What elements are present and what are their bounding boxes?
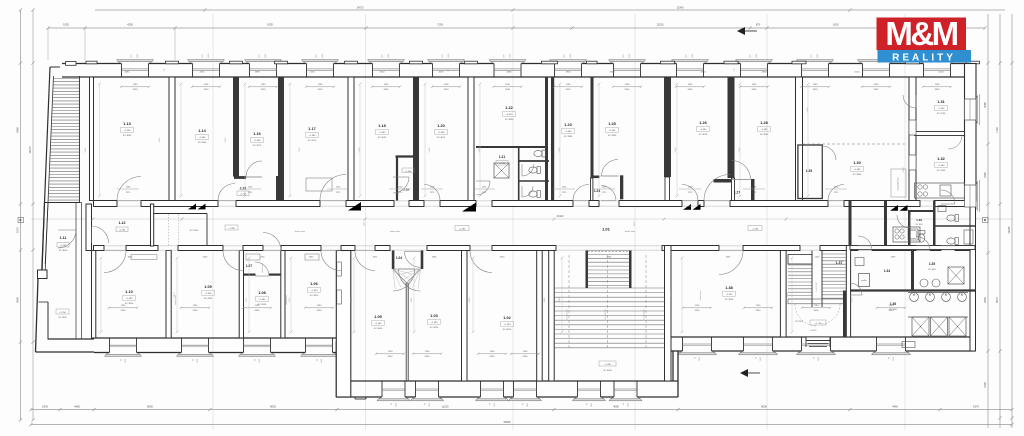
svg-text:1190: 1190 bbox=[444, 84, 449, 86]
svg-text:B: B bbox=[19, 218, 21, 222]
svg-text:SV 3630: SV 3630 bbox=[378, 137, 387, 139]
svg-text:2630: 2630 bbox=[197, 359, 199, 363]
svg-text:1.23: 1.23 bbox=[564, 123, 571, 127]
svg-text:2630: 2630 bbox=[204, 89, 210, 91]
svg-text:1190: 1190 bbox=[566, 84, 571, 86]
svg-text:+1.480: +1.480 bbox=[438, 132, 446, 134]
svg-text:2630: 2630 bbox=[813, 89, 819, 91]
svg-text:2630: 2630 bbox=[388, 356, 394, 358]
svg-text:+1.050: +1.050 bbox=[499, 163, 506, 165]
svg-text:2630: 2630 bbox=[259, 359, 261, 363]
svg-text:1.08: 1.08 bbox=[258, 291, 265, 295]
svg-text:+1.480: +1.480 bbox=[254, 140, 262, 142]
svg-text:8035: 8035 bbox=[270, 405, 276, 409]
svg-text:90: 90 bbox=[587, 403, 589, 405]
svg-text:2630: 2630 bbox=[625, 89, 631, 91]
svg-text:1190: 1190 bbox=[388, 53, 390, 58]
svg-text:1.16: 1.16 bbox=[253, 132, 260, 136]
svg-text:1370: 1370 bbox=[364, 221, 366, 227]
svg-text:SV 3980: SV 3980 bbox=[853, 174, 862, 176]
svg-text:1190: 1190 bbox=[752, 84, 757, 86]
svg-text:7120: 7120 bbox=[995, 127, 999, 133]
svg-text:dveřní otvor: dveřní otvor bbox=[625, 230, 635, 233]
svg-text:SV 3570: SV 3570 bbox=[253, 145, 262, 147]
svg-text:90: 90 bbox=[317, 359, 319, 361]
svg-text:1190: 1190 bbox=[692, 53, 694, 58]
svg-text:1.26: 1.26 bbox=[699, 121, 706, 125]
svg-text:1190: 1190 bbox=[505, 84, 510, 86]
svg-text:1.22: 1.22 bbox=[505, 106, 512, 110]
svg-text:4460: 4460 bbox=[892, 405, 898, 409]
svg-text:1.18: 1.18 bbox=[378, 124, 385, 128]
svg-text:1.04: 1.04 bbox=[396, 256, 402, 260]
svg-text:SV 2440: SV 2440 bbox=[937, 170, 946, 172]
svg-text:1190: 1190 bbox=[322, 53, 324, 58]
svg-text:+1.480: +1.480 bbox=[504, 324, 512, 326]
svg-text:1.19: 1.19 bbox=[403, 188, 409, 192]
svg-text:+1.480: +1.480 bbox=[761, 129, 769, 131]
svg-text:2630: 2630 bbox=[321, 359, 323, 363]
svg-text:9135: 9135 bbox=[267, 23, 273, 27]
svg-text:1190: 1190 bbox=[814, 305, 819, 307]
svg-text:3955: 3955 bbox=[983, 297, 987, 303]
svg-text:1190: 1190 bbox=[490, 351, 495, 353]
svg-text:2630: 2630 bbox=[566, 89, 572, 91]
svg-text:SV 4330: SV 4330 bbox=[204, 298, 213, 300]
svg-text:2630: 2630 bbox=[425, 356, 431, 358]
svg-text:1190: 1190 bbox=[121, 305, 126, 307]
svg-text:90: 90 bbox=[255, 359, 257, 361]
svg-text:2630: 2630 bbox=[688, 89, 694, 91]
svg-text:1.12: 1.12 bbox=[119, 221, 126, 225]
svg-text:dveřní otvor: dveřní otvor bbox=[285, 295, 288, 305]
svg-text:+1.480: +1.480 bbox=[379, 132, 387, 134]
svg-text:1925: 1925 bbox=[63, 23, 69, 27]
svg-text:2190: 2190 bbox=[983, 382, 987, 388]
svg-text:SV 3980: SV 3980 bbox=[505, 119, 514, 121]
svg-text:+1.480: +1.480 bbox=[375, 323, 383, 325]
svg-text:1.21: 1.21 bbox=[499, 155, 505, 159]
svg-text:1190: 1190 bbox=[448, 53, 450, 58]
svg-text:870: 870 bbox=[756, 23, 761, 27]
svg-text:+1.480: +1.480 bbox=[431, 322, 439, 324]
svg-text:23440: 23440 bbox=[557, 215, 564, 218]
svg-text:kuchyňská linka: kuchyňská linka bbox=[898, 178, 900, 191]
svg-text:1970: 1970 bbox=[16, 227, 20, 233]
svg-text:1.14: 1.14 bbox=[198, 129, 206, 133]
svg-text:dveřní otvor: dveřní otvor bbox=[390, 230, 400, 233]
svg-text:+1.480: +1.480 bbox=[938, 108, 946, 110]
svg-text:SV 3630: SV 3630 bbox=[503, 329, 512, 331]
svg-text:10x163/340: 10x163/340 bbox=[567, 309, 569, 321]
svg-text:1190: 1190 bbox=[425, 351, 430, 353]
svg-text:1190: 1190 bbox=[688, 84, 693, 86]
svg-text:1.11: 1.11 bbox=[60, 236, 67, 240]
svg-text:4350: 4350 bbox=[127, 23, 133, 27]
svg-text:SV 3630: SV 3630 bbox=[725, 299, 734, 301]
svg-text:1.01: 1.01 bbox=[602, 227, 611, 232]
svg-text:1.32: 1.32 bbox=[937, 157, 944, 161]
svg-text:+1.465: +1.465 bbox=[205, 293, 213, 295]
svg-text:14570: 14570 bbox=[357, 7, 364, 10]
svg-text:1.29: 1.29 bbox=[806, 169, 812, 173]
svg-text:7105: 7105 bbox=[437, 23, 443, 27]
svg-text:B: B bbox=[984, 218, 986, 222]
svg-text:1190: 1190 bbox=[523, 351, 528, 353]
svg-text:2630: 2630 bbox=[255, 310, 261, 312]
svg-text:2630: 2630 bbox=[527, 403, 529, 407]
svg-text:2630: 2630 bbox=[200, 72, 206, 74]
svg-text:2630: 2630 bbox=[317, 310, 323, 312]
svg-text:1190: 1190 bbox=[255, 305, 260, 307]
svg-text:1.35: 1.35 bbox=[929, 262, 935, 266]
svg-text:2630: 2630 bbox=[752, 89, 758, 91]
svg-text:SV 9030: SV 9030 bbox=[603, 370, 612, 372]
svg-text:+1.480: +1.480 bbox=[752, 229, 759, 231]
svg-text:1970: 1970 bbox=[973, 405, 979, 409]
svg-text:dveřní otvor: dveřní otvor bbox=[261, 263, 264, 273]
svg-text:5675: 5675 bbox=[995, 297, 999, 303]
svg-text:1943: 1943 bbox=[566, 72, 572, 74]
svg-text:dveřní otvor: dveřní otvor bbox=[174, 295, 177, 305]
svg-text:2630: 2630 bbox=[523, 356, 529, 358]
svg-text:1.05: 1.05 bbox=[374, 315, 381, 319]
svg-text:2630: 2630 bbox=[121, 310, 127, 312]
svg-text:2630: 2630 bbox=[125, 359, 127, 363]
svg-text:SV 3570: SV 3570 bbox=[308, 140, 317, 142]
svg-text:SV 3630: SV 3630 bbox=[430, 327, 439, 329]
svg-text:3480: 3480 bbox=[507, 72, 513, 74]
svg-text:90: 90 bbox=[814, 357, 816, 359]
svg-text:1190: 1190 bbox=[510, 53, 512, 58]
svg-text:1190: 1190 bbox=[935, 84, 940, 86]
svg-text:SV 3660: SV 3660 bbox=[760, 134, 769, 136]
svg-text:90: 90 bbox=[523, 403, 525, 405]
svg-text:90: 90 bbox=[121, 359, 123, 361]
svg-text:+1.250: +1.250 bbox=[59, 312, 67, 314]
svg-text:1.28: 1.28 bbox=[760, 121, 767, 125]
svg-text:+1.480: +1.480 bbox=[405, 171, 412, 173]
svg-text:+1.740: +1.740 bbox=[815, 323, 822, 325]
svg-text:2360: 2360 bbox=[983, 172, 987, 178]
svg-text:1.25: 1.25 bbox=[608, 122, 615, 126]
svg-text:1x163/340: 1x163/340 bbox=[816, 281, 818, 291]
svg-text:1190: 1190 bbox=[317, 305, 322, 307]
svg-text:1.33: 1.33 bbox=[916, 218, 922, 222]
svg-text:2630: 2630 bbox=[756, 310, 762, 312]
svg-text:10x163/340: 10x163/340 bbox=[605, 309, 607, 321]
svg-text:SV 3380: SV 3380 bbox=[608, 135, 617, 137]
svg-text:2630: 2630 bbox=[494, 403, 496, 407]
svg-text:+1.480: +1.480 bbox=[565, 131, 573, 133]
svg-text:2630: 2630 bbox=[935, 89, 941, 91]
svg-text:SV 3580: SV 3580 bbox=[198, 142, 207, 144]
svg-text:1.31: 1.31 bbox=[937, 100, 944, 104]
svg-text:5995: 5995 bbox=[16, 297, 20, 303]
svg-text:2630: 2630 bbox=[818, 357, 820, 361]
svg-text:SV 3618: SV 3618 bbox=[699, 134, 708, 136]
svg-text:90: 90 bbox=[193, 359, 195, 361]
svg-text:90: 90 bbox=[889, 357, 891, 359]
svg-text:1190: 1190 bbox=[318, 84, 323, 86]
svg-text:14255: 14255 bbox=[1007, 226, 1011, 234]
svg-text:REALITY: REALITY bbox=[892, 53, 956, 64]
svg-text:2160: 2160 bbox=[310, 72, 316, 74]
svg-text:SV 3630: SV 3630 bbox=[59, 250, 68, 252]
svg-text:+1.453: +1.453 bbox=[726, 294, 734, 296]
svg-text:10x163/340: 10x163/340 bbox=[644, 309, 646, 321]
svg-text:1190: 1190 bbox=[384, 84, 389, 86]
svg-text:+1.480: +1.480 bbox=[854, 169, 862, 171]
svg-text:2040: 2040 bbox=[380, 72, 386, 74]
svg-text:1.20: 1.20 bbox=[437, 124, 444, 128]
svg-text:2630: 2630 bbox=[628, 403, 630, 407]
svg-text:2630: 2630 bbox=[444, 89, 450, 91]
svg-text:+1.480: +1.480 bbox=[199, 137, 207, 139]
svg-text:SV 3680: SV 3680 bbox=[123, 135, 132, 137]
svg-text:2630: 2630 bbox=[505, 89, 511, 91]
svg-text:+1.480: +1.480 bbox=[459, 229, 466, 231]
svg-text:1.03: 1.03 bbox=[430, 314, 437, 318]
svg-text:90: 90 bbox=[391, 403, 393, 405]
svg-text:1945: 1945 bbox=[42, 405, 48, 409]
svg-text:SV 3630: SV 3630 bbox=[916, 224, 923, 226]
svg-text:+1.036: +1.036 bbox=[604, 364, 612, 366]
svg-text:+1.480: +1.480 bbox=[126, 298, 134, 300]
svg-text:1.24: 1.24 bbox=[594, 189, 600, 193]
svg-text:1190: 1190 bbox=[388, 351, 393, 353]
svg-text:2630: 2630 bbox=[490, 356, 496, 358]
svg-text:+1.480: +1.480 bbox=[228, 228, 235, 230]
svg-text:SV 3630: SV 3630 bbox=[374, 328, 383, 330]
svg-text:1988: 1988 bbox=[255, 72, 261, 74]
svg-text:2630: 2630 bbox=[893, 357, 895, 361]
svg-text:1190: 1190 bbox=[208, 53, 210, 58]
svg-text:2630: 2630 bbox=[699, 357, 701, 361]
svg-text:SV 3130: SV 3130 bbox=[937, 113, 946, 115]
svg-text:1.17: 1.17 bbox=[308, 127, 315, 131]
svg-text:1190: 1190 bbox=[756, 305, 761, 307]
svg-text:2630: 2630 bbox=[396, 403, 398, 407]
svg-text:2630: 2630 bbox=[318, 89, 324, 91]
svg-text:90: 90 bbox=[756, 357, 758, 359]
svg-text:90: 90 bbox=[695, 357, 697, 359]
svg-text:2380: 2380 bbox=[762, 72, 768, 74]
svg-text:1190: 1190 bbox=[756, 53, 758, 58]
svg-text:1.15: 1.15 bbox=[240, 187, 246, 191]
svg-text:1.10: 1.10 bbox=[125, 290, 132, 294]
svg-text:+1.480: +1.480 bbox=[309, 135, 317, 137]
svg-text:+1.480: +1.480 bbox=[259, 299, 267, 301]
svg-text:1.37: 1.37 bbox=[836, 261, 843, 265]
svg-text:1.09: 1.09 bbox=[204, 285, 211, 289]
svg-text:2630: 2630 bbox=[384, 89, 390, 91]
svg-text:M&M: M&M bbox=[885, 15, 957, 52]
svg-text:SV 3380: SV 3380 bbox=[564, 136, 573, 138]
svg-text:2630: 2630 bbox=[695, 310, 701, 312]
svg-text:1190: 1190 bbox=[813, 84, 818, 86]
svg-text:2004: 2004 bbox=[939, 72, 945, 74]
svg-text:+1.480: +1.480 bbox=[938, 165, 946, 167]
svg-text:2630: 2630 bbox=[874, 89, 880, 91]
svg-text:SV 3613: SV 3613 bbox=[437, 137, 446, 139]
svg-text:8050: 8050 bbox=[147, 405, 153, 409]
svg-text:90: 90 bbox=[425, 403, 427, 405]
svg-text:1190: 1190 bbox=[193, 305, 198, 307]
svg-text:90: 90 bbox=[490, 403, 492, 405]
svg-text:14375: 14375 bbox=[28, 146, 32, 154]
svg-text:± 0,075: ± 0,075 bbox=[810, 330, 818, 332]
svg-text:1.30: 1.30 bbox=[853, 161, 860, 165]
svg-text:1190: 1190 bbox=[695, 305, 700, 307]
svg-text:2630: 2630 bbox=[193, 310, 199, 312]
svg-text:2630: 2630 bbox=[133, 89, 139, 91]
svg-text:1.38: 1.38 bbox=[725, 286, 732, 290]
svg-text:4450: 4450 bbox=[74, 405, 80, 409]
svg-text:1.34: 1.34 bbox=[884, 269, 890, 273]
svg-text:+1.480: +1.480 bbox=[700, 129, 708, 131]
svg-text:1.27: 1.27 bbox=[734, 191, 740, 195]
svg-text:1.02: 1.02 bbox=[503, 316, 510, 320]
svg-text:SV 2556: SV 2556 bbox=[795, 321, 804, 323]
svg-text:1190: 1190 bbox=[817, 53, 819, 58]
svg-text:2630: 2630 bbox=[261, 89, 267, 91]
svg-text:11220: 11220 bbox=[441, 405, 449, 409]
svg-text:SV 1920: SV 1920 bbox=[190, 230, 199, 232]
svg-text:5210: 5210 bbox=[855, 72, 861, 74]
svg-text:11520: 11520 bbox=[656, 23, 664, 27]
svg-text:1190: 1190 bbox=[570, 53, 572, 58]
svg-text:1190: 1190 bbox=[629, 53, 631, 58]
svg-text:3085: 3085 bbox=[983, 102, 987, 108]
svg-text:2630: 2630 bbox=[591, 403, 593, 407]
svg-text:1190: 1190 bbox=[204, 84, 209, 86]
svg-text:5465: 5465 bbox=[16, 127, 20, 133]
svg-text:2390: 2390 bbox=[701, 72, 707, 74]
svg-text:SV 3630: SV 3630 bbox=[125, 303, 134, 305]
svg-text:1190: 1190 bbox=[261, 84, 266, 86]
svg-text:+1.480: +1.480 bbox=[609, 130, 617, 132]
svg-text:2630: 2630 bbox=[814, 310, 820, 312]
svg-text:6210: 6210 bbox=[833, 23, 839, 27]
svg-text:+0.590: +0.590 bbox=[506, 114, 514, 116]
svg-text:2630: 2630 bbox=[760, 357, 762, 361]
svg-text:15340: 15340 bbox=[677, 7, 684, 10]
svg-text:+1.480: +1.480 bbox=[124, 130, 132, 132]
svg-text:1190: 1190 bbox=[625, 84, 630, 86]
svg-text:2090: 2090 bbox=[439, 72, 445, 74]
svg-text:1190: 1190 bbox=[874, 84, 879, 86]
svg-text:4090: 4090 bbox=[613, 405, 619, 409]
svg-text:1190: 1190 bbox=[137, 53, 139, 58]
svg-text:2630: 2630 bbox=[889, 310, 895, 312]
svg-text:1.13: 1.13 bbox=[123, 122, 130, 126]
svg-text:45945: 45945 bbox=[503, 420, 511, 424]
svg-text:+1.480: +1.480 bbox=[119, 230, 126, 232]
svg-text:1190: 1190 bbox=[265, 53, 267, 58]
svg-text:pračka: pračka bbox=[861, 280, 866, 282]
svg-text:6600: 6600 bbox=[761, 405, 767, 409]
svg-text:SV 3600: SV 3600 bbox=[928, 269, 937, 271]
svg-text:1370: 1370 bbox=[634, 221, 636, 227]
svg-text:3680: 3680 bbox=[125, 72, 131, 74]
svg-text:dveřní otvor: dveřní otvor bbox=[295, 230, 305, 233]
svg-text:dveřní otvor: dveřní otvor bbox=[699, 290, 702, 300]
svg-text:SV 3820: SV 3820 bbox=[310, 295, 319, 297]
svg-text:+1.450: +1.450 bbox=[311, 290, 319, 292]
svg-text:3320: 3320 bbox=[610, 72, 616, 74]
svg-text:1190: 1190 bbox=[133, 84, 138, 86]
svg-text:90: 90 bbox=[623, 403, 625, 405]
svg-text:1.06: 1.06 bbox=[310, 282, 317, 286]
svg-text:2630: 2630 bbox=[429, 403, 431, 407]
svg-text:1190: 1190 bbox=[889, 305, 894, 307]
svg-text:SV 2500: SV 2500 bbox=[58, 317, 67, 319]
